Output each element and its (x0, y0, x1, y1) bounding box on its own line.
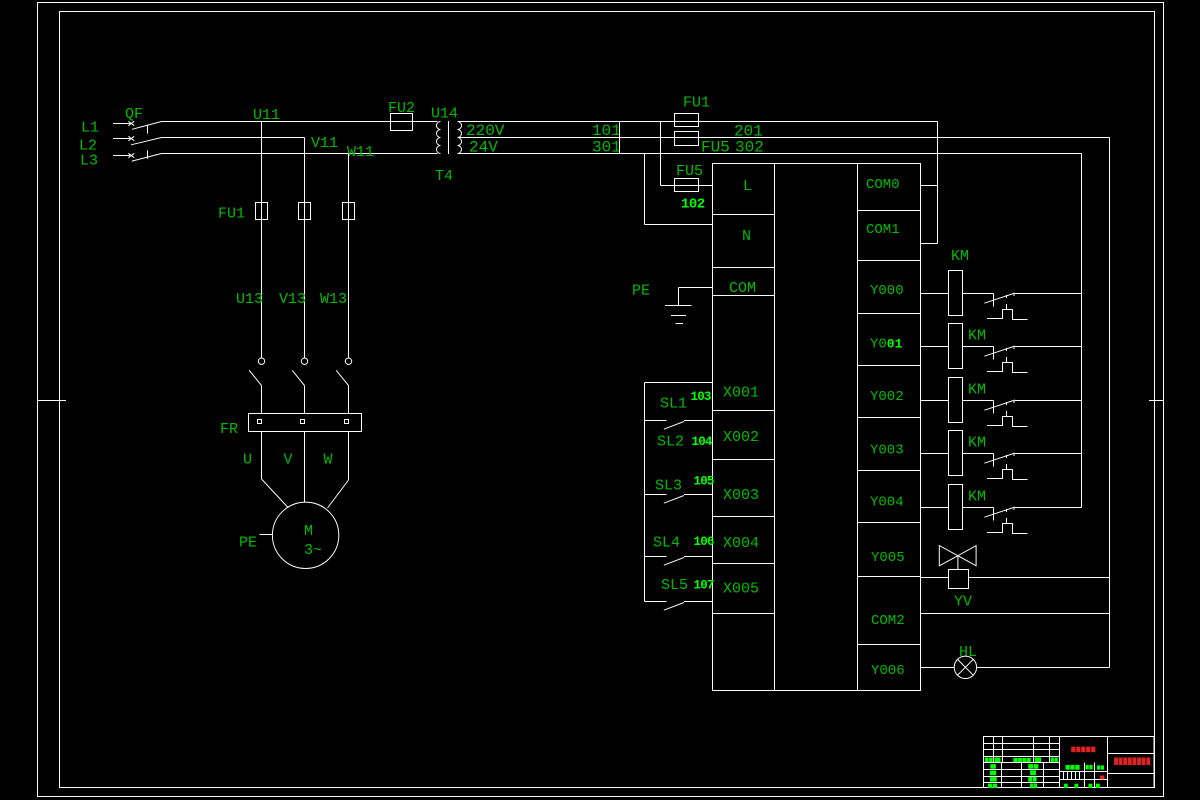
contactor KM Y000 label (951, 248, 969, 265)
svg-text:302: 302 (735, 139, 764, 157)
fuse FU1 pole 2 (299, 203, 311, 220)
svg-text:104: 104 (692, 435, 713, 449)
node W13 label (320, 291, 347, 308)
svg-text:X004: X004 (723, 535, 759, 552)
motor M 3~ (272, 502, 338, 568)
svg-text:102: 102 (681, 197, 705, 213)
node L1 label (81, 120, 99, 137)
svg-text:X002: X002 (723, 429, 759, 446)
svg-text:T4: T4 (435, 168, 453, 185)
fuse FU1 secondary pole 1 (675, 114, 699, 127)
terminal COM label (729, 280, 756, 297)
terminal Y002 label (870, 389, 904, 405)
svg-text:Y004: Y004 (870, 495, 904, 511)
terminal N label (742, 228, 751, 245)
junction terminal box vertical (619, 122, 621, 154)
svg-text:X001: X001 (723, 385, 759, 402)
breaker QF pole L1 (113, 121, 162, 129)
svg-text:FU2: FU2 (388, 100, 415, 117)
svg-text:Y005: Y005 (871, 550, 905, 566)
terminal Y003 label (870, 443, 904, 459)
node U14 label (431, 106, 458, 123)
svg-text:220V: 220V (466, 122, 505, 140)
svg-text:24V: 24V (469, 139, 498, 157)
wire PE to motor (260, 534, 273, 536)
fuse FU2 label (388, 100, 415, 117)
title block grid (984, 737, 1155, 788)
svg-text:SL1: SL1 (660, 396, 687, 413)
terminal X003 label (723, 487, 759, 504)
node V label (284, 452, 293, 469)
fuse FU1 secondary label (683, 95, 710, 112)
terminal X004 label (723, 535, 759, 552)
svg-text:Y003: Y003 (870, 443, 904, 459)
svg-text:PE: PE (632, 283, 650, 300)
transformer T4 label (435, 168, 453, 185)
svg-text:01: 01 (887, 337, 903, 352)
overload relay FR box (249, 414, 362, 432)
terminal Y006 label (871, 663, 905, 679)
title text sheet number (red) (1100, 776, 1105, 780)
wire V to motor (304, 432, 306, 503)
overload relay FR heater 2 (301, 420, 305, 424)
svg-text:SL2: SL2 (657, 434, 684, 451)
svg-text:V13: V13 (279, 291, 306, 308)
contactor coil KM Y002 (921, 378, 963, 423)
svg-text:FU1: FU1 (218, 206, 245, 223)
title text drawing name (red) (1071, 747, 1095, 753)
node U11 label (253, 107, 280, 124)
contactor KM Y003 cam symbol (987, 470, 1028, 480)
switch SL4 (645, 557, 713, 566)
svg-text:W: W (324, 452, 333, 469)
contactor KM Y004 auxiliary contact (963, 507, 1082, 521)
svg-text:FU1: FU1 (683, 95, 710, 112)
valve YV (921, 546, 1110, 589)
svg-text:KM: KM (968, 328, 986, 345)
svg-text:SL3: SL3 (655, 478, 682, 495)
wire L feed vertical (660, 122, 662, 186)
wire L3 phase line (162, 153, 438, 155)
svg-text:COM: COM (729, 280, 756, 297)
fuse FU1 secondary pole 2 (675, 132, 699, 146)
svg-text:PE: PE (239, 535, 257, 552)
contactor KM Y000 cam symbol (987, 310, 1028, 320)
contactor KM Y002 linkage dashes (1006, 402, 1008, 416)
contactor KM main contact 3 (336, 358, 351, 414)
switch SL2 (645, 421, 713, 430)
svg-text:W13: W13 (320, 291, 347, 308)
svg-text:N: N (742, 228, 751, 245)
svg-text:KM: KM (968, 489, 986, 506)
title text sheet row (green) (1064, 784, 1100, 788)
label 101 (592, 122, 621, 140)
title text scale row (green) (1066, 765, 1105, 770)
breaker QF label (125, 106, 143, 123)
breaker QF pole L3 (113, 153, 162, 161)
svg-text:105: 105 (694, 475, 714, 489)
switch SL3 (645, 495, 713, 504)
label 102 (681, 197, 705, 213)
contactor KM Y003 label (968, 435, 986, 452)
switch SL1 (645, 382, 713, 384)
contactor KM Y004 label (968, 489, 986, 506)
title block outline (984, 737, 1155, 788)
contactor KM main contact 1 (249, 358, 264, 414)
svg-text:Y000: Y000 (870, 283, 904, 299)
node U13 label (236, 291, 263, 308)
fuse FU1 pole 1 (256, 203, 268, 220)
terminal X001 label (723, 385, 759, 402)
wire W11 (348, 154, 350, 358)
centering mark right (1149, 400, 1164, 402)
fuse FU5 label (676, 163, 703, 180)
svg-text:Y006: Y006 (871, 663, 905, 679)
node U label (243, 452, 252, 469)
svg-text:COM0: COM0 (866, 177, 900, 193)
node PE label (632, 283, 650, 300)
node W11 label (347, 144, 374, 161)
wire 101 line (458, 137, 1110, 139)
svg-text:106: 106 (694, 535, 714, 549)
lamp HL (921, 656, 1110, 678)
breaker QF pole L2 (113, 136, 162, 145)
svg-text:Y002: Y002 (870, 389, 904, 405)
transformer T4 core (448, 121, 450, 154)
svg-text:FU5: FU5 (676, 163, 703, 180)
switch SL5 (645, 602, 713, 611)
terminal COM0 label (866, 177, 900, 193)
wire 302 to N terminal (645, 154, 713, 225)
switch SL2 label (657, 434, 684, 451)
node L3 label (80, 153, 98, 170)
terminal X005 label (723, 581, 759, 598)
svg-text:107: 107 (694, 579, 714, 593)
svg-text:HL: HL (959, 644, 977, 661)
contactor KM Y000 linkage dashes (1006, 295, 1008, 309)
svg-text:301: 301 (592, 139, 621, 157)
svg-text:QF: QF (125, 106, 143, 123)
title text left column entries (green) (988, 764, 997, 788)
contactor KM Y003 linkage dashes (1006, 455, 1008, 469)
svg-text:FU5: FU5 (701, 139, 730, 157)
svg-text:L3: L3 (80, 153, 98, 170)
terminal X002 label (723, 429, 759, 446)
label FU5 302 (701, 139, 764, 157)
label 220V (466, 122, 505, 140)
svg-text:M: M (304, 523, 313, 540)
contactor KM Y004 cam symbol (987, 524, 1028, 534)
svg-text:V11: V11 (311, 135, 338, 152)
lamp HL label (959, 644, 977, 661)
node V11 label (311, 135, 338, 152)
node V13 label (279, 291, 306, 308)
svg-text:U: U (243, 452, 252, 469)
wire W to motor (328, 432, 349, 508)
terminal COM2 label (871, 613, 905, 629)
switch SL1 label (660, 396, 687, 413)
breaker QF linkage dashes (147, 125, 149, 159)
title text row labels (green) (985, 757, 1058, 762)
title text project name (red) (1114, 758, 1150, 766)
wire 201 rail (1109, 138, 1111, 668)
svg-text:U14: U14 (431, 106, 458, 123)
contactor KM Y002 label (968, 382, 986, 399)
label 106 (694, 535, 714, 549)
node W label (324, 452, 333, 469)
svg-text:FR: FR (220, 421, 238, 438)
wire 302 rail (1081, 154, 1083, 508)
contactor coil KM Y004 (921, 485, 963, 530)
contactor coil KM Y001 (921, 324, 963, 369)
contactor KM Y003 auxiliary contact (963, 453, 1082, 467)
overload relay FR heater 3 (345, 420, 349, 424)
PLC right strip inner edge (857, 164, 859, 691)
switch SL5 label (661, 577, 688, 594)
node L2 label (79, 138, 97, 155)
svg-text:SL4: SL4 (653, 535, 680, 552)
svg-text:KM: KM (968, 435, 986, 452)
valve YV label (954, 594, 972, 611)
contactor coil KM Y000 (921, 271, 963, 316)
wire L2 phase line (162, 137, 305, 139)
node PE motor label (239, 535, 257, 552)
contactor KM Y001 cam symbol (987, 363, 1028, 373)
svg-text:L: L (743, 178, 752, 195)
wire COM0 stub (921, 185, 938, 187)
contactor KM Y002 auxiliary contact (963, 400, 1082, 414)
contactor KM Y002 cam symbol (987, 417, 1028, 427)
label 24V (469, 139, 498, 157)
wire 220V top line to COM feed (458, 121, 938, 123)
svg-text:3~: 3~ (304, 542, 322, 559)
label 104 (692, 435, 713, 449)
fuse FU2 (391, 114, 413, 131)
title text middle column entries (green) (1028, 764, 1038, 788)
contactor KM Y001 linkage dashes (1006, 348, 1008, 362)
svg-text:U11: U11 (253, 107, 280, 124)
wire V11 (304, 138, 306, 358)
fuse FU1 pole 3 (343, 203, 355, 220)
wire FU5 to L terminal (661, 185, 713, 187)
label 105 (694, 475, 714, 489)
contactor KM Y000 auxiliary contact (963, 293, 1082, 307)
svg-text:L1: L1 (81, 120, 99, 137)
svg-text:Y0: Y0 (870, 337, 887, 353)
svg-text:YV: YV (954, 594, 972, 611)
terminal L label (743, 178, 752, 195)
wire SL common rail (644, 383, 646, 602)
svg-text:KM: KM (968, 382, 986, 399)
fuse FU5 (675, 179, 699, 192)
transformer T4 secondary winding 24V (458, 138, 462, 154)
svg-text:103: 103 (691, 390, 711, 404)
svg-text:V: V (284, 452, 293, 469)
overload relay FR heater 1 (258, 420, 262, 424)
centering mark left (38, 400, 67, 402)
switch SL4 label (653, 535, 680, 552)
ground PE (665, 288, 713, 324)
contactor KM main contact 2 (292, 358, 307, 414)
wire COM feed vertical (937, 122, 939, 244)
contactor KM Y001 auxiliary contact (963, 346, 1082, 360)
overload relay FR label (220, 421, 238, 438)
fuse FU1 label (218, 206, 245, 223)
terminal Y004 label (870, 495, 904, 511)
svg-text:KM: KM (951, 248, 969, 265)
label 103 (691, 390, 711, 404)
terminal Y005 label (871, 550, 905, 566)
PLC box outline (713, 164, 921, 691)
PLC right strip dividers (858, 211, 921, 645)
contactor KM Y001 label (968, 328, 986, 345)
label 107 (694, 579, 714, 593)
PLC left strip inner edge (774, 164, 776, 691)
terminal Y000 label (870, 283, 904, 299)
transformer T4 secondary winding 220V (458, 122, 462, 138)
contactor coil KM Y003 (921, 431, 963, 476)
svg-text:X003: X003 (723, 487, 759, 504)
wire U to motor (262, 432, 289, 508)
wire U11 (261, 122, 263, 358)
switch SL3 label (655, 478, 682, 495)
svg-text:101: 101 (592, 122, 621, 140)
svg-text:X005: X005 (723, 581, 759, 598)
label 201 (734, 123, 763, 141)
svg-text:COM1: COM1 (866, 222, 900, 238)
wire 301 line (458, 153, 1082, 155)
svg-text:U13: U13 (236, 291, 263, 308)
svg-text:SL5: SL5 (661, 577, 688, 594)
PLC left strip dividers (713, 215, 775, 614)
transformer T4 primary winding (437, 122, 441, 154)
label 301 (592, 139, 621, 157)
svg-text:COM2: COM2 (871, 613, 905, 629)
terminal COM1 label (866, 222, 900, 238)
wire L1 phase line (162, 121, 438, 123)
contactor KM Y004 linkage dashes (1006, 509, 1008, 523)
wire COM2 (921, 613, 1110, 615)
terminal Y001 label (870, 337, 903, 353)
svg-text:W11: W11 (347, 144, 374, 161)
wire COM1 stub (921, 243, 938, 245)
